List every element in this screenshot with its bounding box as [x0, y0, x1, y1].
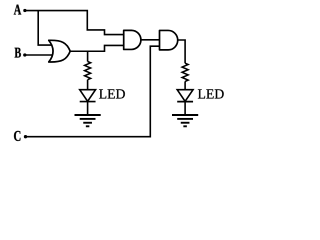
ground GND1 [75, 115, 101, 126]
LED D2 diode triangle [177, 90, 193, 102]
LED D1 diode triangle [80, 90, 96, 102]
wire OR output to U2 AND bottom input [70, 45, 124, 51]
node B label [15, 48, 21, 58]
ground GND2 [172, 115, 198, 126]
wire C along bottom and riser to U3 AND bottom input [26, 46, 160, 137]
LED D2 cathode bar [177, 101, 193, 103]
wire A top run staircase to U2 AND top input [25, 11, 124, 35]
LED D1 cathode bar [80, 101, 96, 103]
wire R2 to LED D2 [184, 81, 186, 89]
wire R1 to LED D1 [87, 80, 89, 90]
and-gate U3 [160, 30, 178, 49]
wire A drop to OR gate top input [38, 11, 52, 46]
and-gate U2 [124, 30, 141, 49]
wire D2 to ground [184, 102, 186, 115]
label LED (D2) [198, 89, 224, 98]
resistor R1 [85, 62, 91, 80]
node B terminal dot [23, 53, 26, 56]
or-gate U1 [49, 40, 70, 62]
label LED (D1) [99, 89, 125, 98]
wire branch junction down to resistor R1 [87, 51, 89, 61]
node A label [14, 5, 21, 15]
wire D1 to ground [87, 102, 89, 115]
node C label [14, 131, 20, 141]
node C terminal dot [24, 135, 27, 138]
wire U3 output corner down to resistor R2 [178, 40, 186, 63]
resistor R2 [182, 63, 188, 81]
wire U2 output to U3 AND top input [141, 39, 160, 41]
node A terminal dot [23, 9, 26, 12]
wire B to OR gate bottom input [25, 54, 53, 56]
